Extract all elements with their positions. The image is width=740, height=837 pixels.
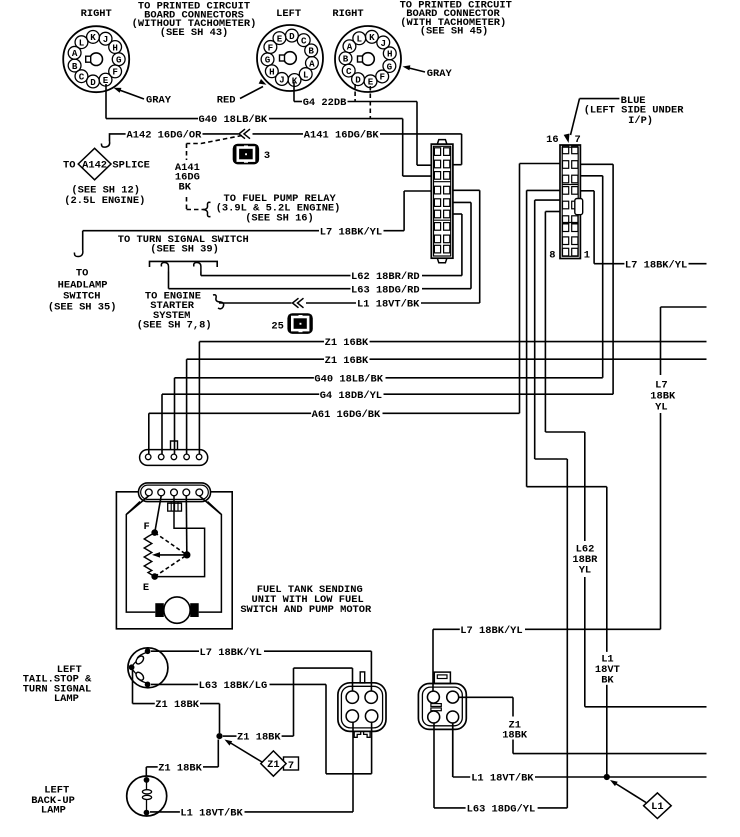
svg-text:F: F [268,42,274,53]
svg-text:YL: YL [579,565,591,577]
svg-text:G4 18DB/YL: G4 18DB/YL [320,390,382,402]
svg-text:F: F [379,72,385,83]
svg-text:TO: TO [63,160,75,172]
svg-text:(SEE SH 45): (SEE SH 45) [420,26,489,38]
svg-text:L1: L1 [651,801,663,813]
svg-text:K: K [90,32,96,43]
svg-text:A142 16DG/OR: A142 16DG/OR [127,130,203,142]
svg-text:(SEE SH 39): (SEE SH 39) [150,244,219,256]
svg-text:BK: BK [601,675,614,687]
svg-text:(SEE SH 43): (SEE SH 43) [160,27,229,39]
svg-text:E: E [143,582,149,594]
svg-text:C: C [301,35,307,46]
svg-text:J: J [380,38,386,49]
svg-text:(2.5L ENGINE): (2.5L ENGINE) [64,195,145,207]
svg-text:L63 18DG/YL: L63 18DG/YL [467,804,536,816]
svg-text:8: 8 [549,250,555,262]
svg-text:J: J [279,74,285,85]
svg-text:F: F [112,67,118,78]
svg-text:G40 18LB/BK: G40 18LB/BK [199,114,268,126]
svg-text:LEFT: LEFT [276,8,301,20]
svg-text:L7 18BK/YL: L7 18BK/YL [320,226,382,238]
svg-text:H: H [269,67,275,78]
svg-text:B: B [308,46,314,57]
svg-text:Z1 16BK: Z1 16BK [325,355,369,367]
svg-text:J: J [103,34,109,45]
svg-text:G: G [265,55,271,66]
svg-text:GRAY: GRAY [427,68,453,80]
svg-text:RED: RED [217,95,236,107]
svg-text:18BK: 18BK [502,730,528,742]
svg-text:L: L [357,34,363,45]
svg-text:7: 7 [288,760,294,772]
svg-text:G40 18LB/BK: G40 18LB/BK [314,373,383,385]
svg-text:G: G [387,61,393,72]
svg-text:7: 7 [575,134,581,146]
svg-text:E: E [277,33,283,44]
svg-text:L7: L7 [655,379,667,391]
svg-text:(SEE SH 35): (SEE SH 35) [48,302,117,314]
svg-text:L1 18VT/BK: L1 18VT/BK [357,299,420,311]
svg-text:K: K [369,32,375,43]
svg-text:G: G [116,55,122,66]
svg-text:L1 18VT/BK: L1 18VT/BK [471,773,534,785]
svg-text:(SEE SH 7,8): (SEE SH 7,8) [137,320,212,332]
svg-text:BK: BK [179,181,192,193]
svg-text:H: H [387,49,393,60]
svg-text:L: L [303,69,309,80]
svg-text:L63 18BK/LG: L63 18BK/LG [199,680,268,692]
svg-text:L: L [79,37,85,48]
svg-text:Z1: Z1 [267,759,279,771]
svg-text:B: B [343,54,349,65]
svg-text:L63 18DG/RD: L63 18DG/RD [351,284,420,296]
svg-text:(SEE SH 16): (SEE SH 16) [245,212,314,224]
svg-text:D: D [355,74,361,85]
svg-text:H: H [112,42,118,53]
svg-text:Z1 18BK: Z1 18BK [237,732,281,744]
svg-text:LAMP: LAMP [41,805,66,817]
svg-text:G4 22DB: G4 22DB [303,97,347,109]
svg-text:SPLICE: SPLICE [112,160,149,172]
svg-text:D: D [90,77,96,88]
svg-text:1: 1 [584,250,590,262]
svg-text:RIGHT: RIGHT [81,8,112,20]
svg-text:L7 18BK/YL: L7 18BK/YL [625,259,687,271]
svg-text:RIGHT: RIGHT [332,8,363,20]
svg-text:3: 3 [264,150,270,162]
svg-text:LAMP: LAMP [54,693,79,705]
svg-text:A: A [309,58,315,69]
svg-text:L62 18BR/RD: L62 18BR/RD [351,271,420,283]
svg-text:D: D [289,31,295,42]
svg-text:TO: TO [76,267,88,279]
svg-text:C: C [79,71,85,82]
svg-text:16: 16 [546,134,558,146]
svg-text:L7 18BK/YL: L7 18BK/YL [460,625,522,637]
svg-text:F: F [144,521,150,533]
svg-text:Z1 16BK: Z1 16BK [325,337,369,349]
svg-text:A: A [72,48,78,59]
svg-text:A142: A142 [82,160,107,172]
svg-text:L1 18VT/BK: L1 18VT/BK [180,808,243,820]
svg-text:A141 16DG/BK: A141 16DG/BK [304,130,380,142]
svg-text:25: 25 [271,320,283,332]
svg-text:A61 16DG/BK: A61 16DG/BK [312,409,381,421]
svg-text:GRAY: GRAY [146,95,172,107]
svg-text:B: B [72,61,78,72]
svg-text:C: C [346,66,352,77]
svg-text:Z1 18BK: Z1 18BK [155,699,199,711]
svg-text:Z1 18BK: Z1 18BK [158,763,202,775]
svg-text:L7 18BK/YL: L7 18BK/YL [200,647,262,659]
svg-text:A: A [347,42,353,53]
svg-text:I/P): I/P) [628,115,653,127]
svg-text:SWITCH AND PUMP MOTOR: SWITCH AND PUMP MOTOR [240,604,372,616]
svg-text:YL: YL [655,401,667,413]
